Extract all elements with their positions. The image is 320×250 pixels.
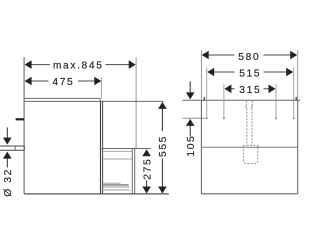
svg-text:315: 315 xyxy=(239,85,261,96)
svg-text:Ø 32: Ø 32 xyxy=(3,168,14,197)
svg-text:max.845: max.845 xyxy=(53,61,104,72)
svg-text:555: 555 xyxy=(158,135,169,157)
svg-text:515: 515 xyxy=(239,69,261,80)
svg-text:105: 105 xyxy=(186,135,197,157)
svg-text:275: 275 xyxy=(142,158,153,180)
svg-text:475: 475 xyxy=(52,77,74,88)
svg-text:580: 580 xyxy=(238,52,260,63)
